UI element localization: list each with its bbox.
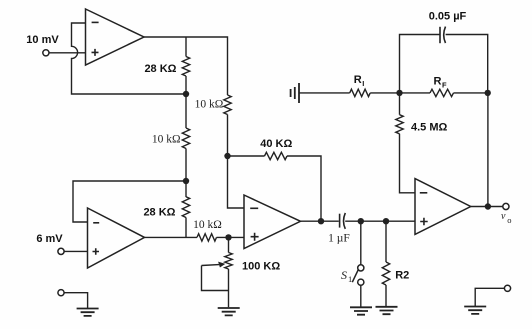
wire: 28K bottom to node A bbox=[185, 76, 187, 94]
terminal: 10 mV input bbox=[43, 50, 49, 56]
ground (bottom left) bbox=[77, 309, 99, 316]
resistor 4.5 MΩ bbox=[396, 115, 403, 134]
wire: U1 output bbox=[144, 37, 228, 95]
node B junction dot bbox=[183, 178, 189, 184]
wire: 10k bottom to node B bbox=[185, 149, 187, 182]
svg-text:4.5 MΩ: 4.5 MΩ bbox=[411, 122, 448, 134]
node J junction dot (U4 output) bbox=[485, 203, 491, 209]
svg-text:F: F bbox=[442, 81, 447, 90]
wire: terminal to ground bbox=[64, 293, 88, 308]
wire: U2 feedback inverting input to node B bbox=[73, 181, 186, 222]
node C junction dot bbox=[224, 153, 230, 159]
wire: node B to 28K lower bbox=[185, 181, 187, 197]
wire: wiper short to bottom bbox=[202, 266, 229, 308]
wire: 4.5M to U4 inverting input bbox=[400, 134, 416, 193]
wire: 6 mV to U2 non-inverting input bbox=[64, 250, 88, 252]
node D junction dot (pot tap) bbox=[225, 234, 231, 240]
resistor 28 KΩ (lower, U2 feedback) bbox=[182, 197, 189, 218]
terminal: bottom-right ground terminal bbox=[504, 285, 510, 291]
svg-text:0.05 µF: 0.05 µF bbox=[429, 11, 467, 23]
switch S1 blade bbox=[352, 270, 358, 282]
terminal vo bbox=[503, 203, 509, 209]
svg-text:6 mV: 6 mV bbox=[36, 233, 63, 245]
wire: 28K lower bottom to U2 output line bbox=[185, 218, 187, 238]
wire: 40K right to U3 output node bbox=[287, 156, 321, 221]
op-amp U3 (middle) bbox=[244, 195, 301, 249]
resistor 28 KΩ (upper, U1 feedback) bbox=[182, 57, 189, 77]
svg-text:R: R bbox=[434, 76, 442, 88]
svg-text:28 KΩ: 28 KΩ bbox=[143, 206, 175, 218]
wire: node H to RF bbox=[400, 92, 431, 94]
svg-text:100 KΩ: 100 KΩ bbox=[242, 261, 280, 273]
terminal: bottom-left ground terminal bbox=[58, 290, 64, 296]
svg-text:R: R bbox=[354, 74, 362, 86]
svg-text:o: o bbox=[507, 215, 511, 225]
terminal: 6 mV input bbox=[58, 248, 64, 254]
wire: 10 mV input to U1 non-inverting input bbox=[49, 52, 86, 54]
node H junction dot bbox=[396, 90, 402, 96]
wire: terminal to ground bbox=[475, 288, 504, 306]
wire: node J up to node I bbox=[487, 93, 489, 207]
resistor 10 kΩ (left column) bbox=[182, 128, 189, 149]
node E junction dot (U3 output) bbox=[318, 218, 324, 224]
potentiometer wiper arrow bbox=[202, 264, 220, 267]
wire: 10k to U3 non-inverting input bbox=[217, 236, 245, 238]
resistor 40 KΩ (U3 feedback) bbox=[265, 152, 288, 159]
svg-text:I: I bbox=[362, 79, 364, 88]
wire: cap to right branch bbox=[446, 35, 488, 93]
wire: R2 to ground bbox=[385, 285, 387, 307]
wire: cap to U4 non-inverting input bbox=[345, 220, 415, 222]
wire: node A down to 10k bbox=[185, 94, 187, 128]
svg-text:v: v bbox=[501, 211, 506, 222]
ground (inverting input reference, left-facing) bbox=[291, 83, 299, 103]
wire: 28K top lead from U1 output line bbox=[185, 37, 187, 57]
resistor R2 bbox=[382, 262, 389, 285]
svg-text:10 kΩ: 10 kΩ bbox=[152, 134, 181, 146]
svg-text:10 kΩ: 10 kΩ bbox=[193, 219, 222, 231]
wire: node C down to U3 inverting input bbox=[228, 156, 245, 208]
svg-text:1: 1 bbox=[348, 274, 352, 284]
wire: U2 output bbox=[145, 236, 198, 238]
ground (R2) bbox=[376, 307, 398, 314]
wire: node H up and across to cap bbox=[400, 35, 441, 93]
svg-text:R2: R2 bbox=[395, 269, 409, 281]
ground (bottom right) bbox=[464, 307, 486, 314]
op-amp U4 (right) bbox=[415, 179, 471, 235]
node F junction dot (S1 tap) bbox=[358, 218, 364, 224]
capacitor 1 µF bbox=[339, 214, 341, 228]
wire: U1 feedback, inverting input to node A (with hop over input wire) bbox=[72, 23, 187, 94]
wire: Ri to node H bbox=[370, 92, 399, 94]
svg-text:1 µF: 1 µF bbox=[328, 232, 350, 244]
wire: node D down to potentiometer bbox=[228, 237, 230, 252]
op-amp U2 (bottom left) bbox=[88, 208, 145, 268]
svg-text:28 KΩ: 28 KΩ bbox=[144, 63, 176, 75]
svg-text:S: S bbox=[341, 268, 347, 282]
wire: U4 output to vo terminal bbox=[471, 206, 503, 208]
svg-text:10 kΩ: 10 kΩ bbox=[195, 99, 224, 111]
wire: node F down to switch S1 bbox=[360, 221, 362, 265]
wire: U3 output to node E bbox=[301, 220, 339, 222]
resistor 10 kΩ (horizontal, U2 output) bbox=[197, 234, 217, 241]
wire: 10k to node C bbox=[227, 115, 229, 157]
node I junction dot bbox=[485, 90, 491, 96]
wire: switch to ground bbox=[360, 285, 362, 307]
wire: node G down to R2 bbox=[385, 221, 387, 262]
svg-text:40 KΩ: 40 KΩ bbox=[260, 138, 292, 150]
switch S1 contacts bbox=[358, 265, 364, 271]
resistor RF bbox=[430, 89, 454, 96]
wire: node C to 40K bbox=[228, 155, 265, 157]
node A junction dot bbox=[183, 91, 189, 97]
op-amp U1 (top left) bbox=[86, 9, 145, 65]
ground (potentiometer) bbox=[218, 308, 240, 315]
capacitor 0.05 µF bbox=[439, 27, 441, 43]
ground (switch S1) bbox=[350, 307, 372, 314]
wire: ground to Ri bbox=[299, 92, 350, 94]
resistor 10 kΩ (second column) bbox=[224, 95, 231, 115]
potentiometer 100 KΩ bbox=[225, 253, 232, 270]
svg-text:10 mV: 10 mV bbox=[26, 34, 59, 46]
wire: RF to node I bbox=[454, 92, 488, 94]
resistor Ri bbox=[350, 89, 371, 96]
wire: node H down to 4.5M bbox=[399, 93, 401, 115]
node G junction dot (R2 tap) bbox=[383, 218, 389, 224]
